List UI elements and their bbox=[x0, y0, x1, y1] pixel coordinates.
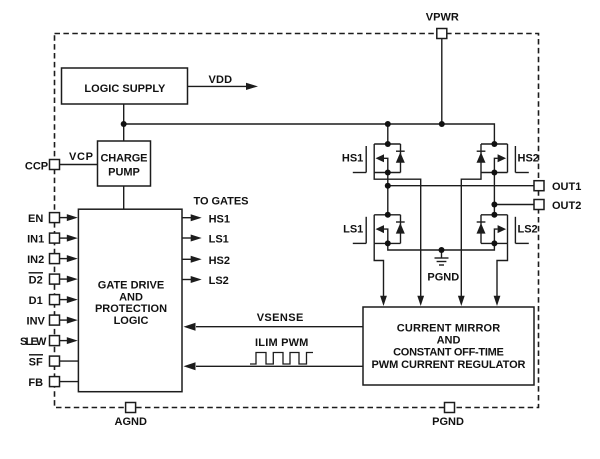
svg-text:LOGIC SUPPLY: LOGIC SUPPLY bbox=[84, 83, 166, 95]
svg-text:HS2: HS2 bbox=[518, 153, 539, 165]
wire: LS2 source tap to current mirror bbox=[497, 243, 508, 296]
svg-text:CURRENT MIRROR: CURRENT MIRROR bbox=[397, 323, 500, 335]
ILIM PWM waveform glyph bbox=[250, 353, 313, 365]
gate drive outputs TO GATES bbox=[182, 214, 202, 283]
pin pad VPWR bbox=[437, 29, 447, 39]
wire: VDD output line bbox=[188, 85, 248, 87]
wire out LS1 bbox=[182, 237, 192, 239]
wire: HS1 source tap to current mirror bbox=[374, 173, 421, 297]
pin pad SF bbox=[50, 356, 60, 366]
svg-text:SLEW: SLEW bbox=[20, 336, 47, 348]
svg-text:LS1: LS1 bbox=[343, 223, 363, 235]
wire: CCP pad to charge pump (VCP) bbox=[60, 164, 98, 166]
block: CURRENT MIRROR / PWM CURRENT REGULATOR bbox=[363, 307, 534, 385]
wire: VSENSE bbox=[196, 326, 363, 328]
IC boundary dashed border bbox=[55, 34, 539, 408]
transistor HS1 bbox=[353, 144, 405, 173]
pin pad D1 bbox=[50, 295, 60, 305]
wire: LS sources PGND bus bbox=[388, 243, 495, 250]
wire IN1 bbox=[60, 237, 69, 239]
svg-text:INV: INV bbox=[27, 315, 46, 327]
pin pad EN bbox=[50, 213, 60, 223]
svg-text:IN2: IN2 bbox=[27, 254, 44, 266]
wire FB bbox=[60, 381, 79, 383]
svg-text:AGND: AGND bbox=[115, 416, 147, 428]
wire INV bbox=[60, 319, 69, 321]
wire D1 bbox=[60, 299, 69, 301]
block: CHARGE PUMP bbox=[98, 141, 151, 186]
svg-text:IN1: IN1 bbox=[27, 233, 44, 245]
pin pad IN2 bbox=[50, 254, 60, 264]
wire: OUT2 line bbox=[494, 204, 534, 206]
svg-text:TO GATES: TO GATES bbox=[194, 195, 249, 207]
pin pad CCP bbox=[50, 160, 60, 170]
svg-text:LS2: LS2 bbox=[518, 223, 538, 235]
svg-text:PWM CURRENT REGULATOR: PWM CURRENT REGULATOR bbox=[372, 359, 526, 371]
pin pad PGND bbox=[445, 403, 455, 413]
wire: charge pump to gate drive bbox=[123, 186, 125, 209]
transistor HS2 bbox=[477, 144, 529, 173]
svg-text:PUMP: PUMP bbox=[108, 167, 140, 179]
pin input wires and arrows bbox=[60, 214, 79, 382]
wire: HS1 drain up to rail bbox=[387, 124, 389, 144]
pin pad SLEW bbox=[50, 336, 60, 346]
junction dots bbox=[121, 121, 498, 253]
pin pad IN1 bbox=[50, 233, 60, 243]
svg-text:LS1: LS1 bbox=[209, 234, 229, 246]
block: LOGIC SUPPLY bbox=[62, 68, 188, 104]
pin pads bbox=[50, 29, 545, 413]
wire out LS2 bbox=[182, 279, 192, 281]
pin pad OUT2 bbox=[534, 200, 544, 210]
svg-text:HS2: HS2 bbox=[209, 255, 230, 267]
svg-text:CHARGE: CHARGE bbox=[101, 153, 148, 165]
pin pad INV bbox=[50, 315, 60, 325]
svg-text:VDD: VDD bbox=[209, 74, 233, 86]
svg-text:VPWR: VPWR bbox=[426, 12, 459, 24]
wire SF bbox=[60, 360, 79, 362]
svg-text:OUT2: OUT2 bbox=[552, 200, 581, 212]
wire EN bbox=[60, 217, 69, 219]
svg-text:AND: AND bbox=[119, 291, 143, 303]
wire: HS2 source to LS2 drain (OUT2 node vertical) bbox=[493, 173, 495, 215]
wire: HS2 source tap to current mirror bbox=[461, 173, 481, 297]
wire IN2 bbox=[60, 258, 69, 260]
wire: ILIM PWM bbox=[196, 365, 363, 367]
wire: VPWR rail bbox=[124, 124, 495, 144]
transistor LS1 bbox=[353, 215, 405, 244]
arrows into current mirror bbox=[380, 296, 500, 306]
svg-text:CONSTANT OFF-TIME: CONSTANT OFF-TIME bbox=[393, 347, 504, 359]
ground symbol PGND (bridge) bbox=[441, 250, 443, 258]
wire: LS1 source tap to current mirror bbox=[374, 243, 383, 296]
svg-text:D1: D1 bbox=[29, 295, 43, 307]
svg-text:LS2: LS2 bbox=[209, 275, 229, 287]
svg-text:GATE DRIVE: GATE DRIVE bbox=[98, 280, 164, 292]
svg-text:EN: EN bbox=[28, 213, 43, 225]
wire: OUT1 line bbox=[388, 185, 534, 187]
pin pad AGND bbox=[126, 403, 136, 413]
svg-text:PGND: PGND bbox=[432, 416, 464, 428]
svg-text:LOGIC: LOGIC bbox=[114, 315, 149, 327]
wire D2 bbox=[60, 278, 69, 280]
arrow VDD bbox=[246, 83, 258, 90]
wire out HS1 bbox=[182, 217, 192, 219]
svg-text:PROTECTION: PROTECTION bbox=[95, 303, 167, 315]
svg-text:VSENSE: VSENSE bbox=[257, 312, 304, 324]
block: GATE DRIVE AND PROTECTION LOGIC bbox=[78, 209, 182, 392]
wire: logic supply to rail to charge pump bbox=[123, 104, 125, 141]
pin pad FB bbox=[50, 377, 60, 387]
wire: HS1 source to LS1 drain (OUT1 node vertical) bbox=[387, 173, 389, 215]
svg-text:HS1: HS1 bbox=[209, 213, 230, 225]
svg-text:D2: D2 bbox=[29, 274, 43, 286]
svg-text:CCP: CCP bbox=[25, 160, 48, 172]
svg-text:AND: AND bbox=[437, 335, 461, 347]
wire SLEW bbox=[60, 340, 69, 342]
svg-text:ILIM PWM: ILIM PWM bbox=[255, 337, 308, 349]
svg-text:HS1: HS1 bbox=[342, 153, 363, 165]
pin pad D2 bbox=[50, 274, 60, 284]
wire out HS2 bbox=[182, 258, 192, 260]
svg-text:OUT1: OUT1 bbox=[552, 181, 581, 193]
transistor LS2 bbox=[477, 215, 529, 244]
svg-text:VCP: VCP bbox=[69, 151, 93, 163]
svg-text:SF: SF bbox=[29, 356, 43, 368]
svg-text:FB: FB bbox=[28, 377, 43, 389]
wire: VPWR pad down to rail bbox=[441, 39, 443, 125]
pin pad OUT1 bbox=[534, 181, 544, 191]
svg-text:PGND: PGND bbox=[427, 272, 459, 284]
